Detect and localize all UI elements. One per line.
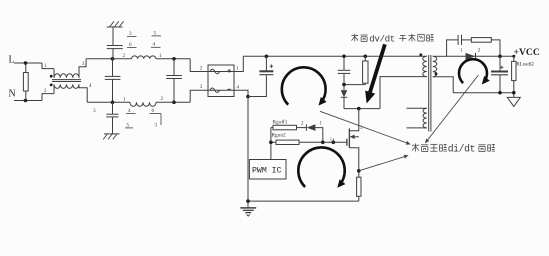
pin label 4 (filter) [151,42,161,48]
pin label 5 (filter) [152,30,162,36]
capacitor C3 (output electrolytic) with + mark [491,56,508,92]
pin 2 label (L1 left) [123,54,126,59]
junction dot gate pin [332,139,336,145]
pin 2 label (L2 right) [161,97,164,102]
junction dot RLoad bottom [512,91,516,95]
pin 1 label (L1 right) [159,54,162,59]
pointer line 2 (secondary loop to label) [425,75,479,143]
junction dot Rgon2 tee [269,141,273,145]
transformer T1 primary winding [423,56,427,76]
junction dot N [24,99,28,103]
chassis ground (top) [107,21,124,27]
transformer secondary polarity dot [435,72,438,75]
wire N input [14,100,42,102]
pin 3 label (choke) [82,62,85,67]
junction dot MOSFET drain [357,107,361,111]
node L (line input terminal label) [9,55,15,66]
svg-text:4: 4 [128,108,131,114]
svg-text:+VCC: +VCC [514,47,540,58]
junction dot gate diode leg [321,141,325,145]
transistor Q1 drain lead [349,109,358,131]
choke core lines [52,80,81,82]
wire bridge + output to DC rail [234,56,243,71]
PWM IC label [252,166,282,175]
junction dot snubber cap top [342,55,346,59]
pin 4 label (choke) [89,84,92,89]
inductor L1 (top differential choke) [132,56,156,59]
svg-text:5: 5 [127,122,130,128]
big arrow (dv/dt network pointer) [365,44,385,103]
bridge + mark [227,69,231,73]
wire L to choke pin 1 [42,63,54,69]
svg-text:di/dt: di/dt [448,144,475,155]
transistor Q1 channel bar [348,128,350,147]
transformer T1 auxiliary winding [407,108,427,128]
choke polarity dot bottom [50,84,53,87]
pin 2 label (gate diode) [301,122,304,127]
bridge - mark [227,88,231,90]
pin label 5 (bottom filter) [125,122,133,128]
pin 2 label (MOSFET drain) [360,124,362,129]
pin 1 label (output diode) [460,48,463,53]
wire top rail to bridge pin 2 [190,59,208,72]
RLoad value label [516,62,534,67]
svg-text:1: 1 [330,136,332,141]
pin label 6 (bottom filter) [150,108,162,125]
capacitor C1 (bulk electrolytic) with + mark [248,56,273,96]
capacitor CX1 (X-cap) [105,59,121,103]
pin label 6 (filter) [127,42,137,48]
bridge AC line bottom with ~ [208,88,234,92]
transistor Q1 body arrow [350,135,359,139]
wire secondary bottom lead [433,77,453,93]
RC snubber branch (output) [447,35,472,56]
pointer line 3 (sense resistor to label) [359,155,409,171]
capacitor C2 (snubber cap) [338,56,351,84]
junction dot sense pointer [357,169,361,173]
svg-text:Rgon2: Rgon2 [272,133,286,139]
junction dot output cap top [498,55,502,59]
junction dot L [24,61,28,65]
junction dot top rail / Y-cap 1 [111,57,115,61]
pin 2 label (bridge) [200,67,203,72]
transformer T1 secondary winding [433,56,437,76]
current loop arrow 2 (gate/source loop) [298,147,345,187]
svg-text:dv/dt: dv/dt [369,33,395,44]
current loop arrow 3 (secondary loop) [459,59,490,84]
svg-text:6: 6 [129,42,132,48]
common-mode choke LF1 top winding [54,69,79,78]
ground (output, open triangle) [507,97,520,106]
svg-text:6: 6 [152,108,155,114]
wire secondary top lead [433,55,447,57]
wire output diode anode line [447,55,514,57]
wire snubber bottom bus [344,84,365,86]
wire DC + rail [243,55,426,57]
diode D1 (snubber diode) [341,85,348,109]
wire PWM top vertical [270,128,272,160]
diode D3 (gate turn-off diode) [306,124,322,142]
svg-text:PWM IC: PWM IC [252,166,282,175]
junction dot snubber bus [342,83,346,87]
inductor L2 (bottom differential choke) [130,102,156,106]
wire gate bus [271,141,347,143]
resistor R7 (current sense) [357,177,361,201]
wire N to choke pin 2 [42,94,54,101]
Rgon2 label [272,133,286,139]
svg-text:3: 3 [129,31,132,37]
svg-text:N: N [9,89,16,100]
wire bottom rail to bridge pin 3 [190,90,208,102]
junction dot bottom rail / X-cap 2 [172,101,176,105]
PWM IC U1 box [249,160,286,180]
pin 3 label (bridge) [200,85,203,90]
svg-text:5: 5 [154,30,157,36]
svg-text:4: 4 [153,42,156,48]
junction dot output cap bottom [498,91,502,95]
pin label 3b (bottom filter) [155,122,158,128]
pin 1 label (MOSFET gate) [330,136,332,141]
pin 1 label (choke) [45,64,48,69]
wire output bottom rail [453,92,514,94]
pin 1 label (bridge +) [236,67,239,72]
pin 1 label (L2 left) [123,98,126,103]
transformer core lines [429,55,431,132]
wire bridge - output down [234,90,248,207]
pin label 3 (over underline, filter) [127,31,137,37]
pin 1 label (gate diode) [320,122,323,127]
junction dot snubber resistor top [364,55,368,59]
label: 极高dv/dt干扰网络 (high dv/dt interference network) [351,33,433,44]
junction dot top rail / X-cap 2 [172,57,176,61]
junction dot RLoad top [512,55,515,58]
Rgoff1 label [273,118,288,125]
wire top AC rail [86,58,190,60]
pointer line 1 (primary loop to label) [320,111,411,144]
svg-text:Rgoff1: Rgoff1 [273,118,288,125]
common-mode choke LF1 bottom winding [54,84,79,93]
chassis ground (bottom) [103,134,119,140]
diode D2 (output rectifier) [466,53,476,60]
transistor Q1 gate bar [346,139,348,146]
svg-text:L: L [9,55,15,66]
junction dot ground bus [246,199,250,203]
svg-text:RLoadΩ: RLoadΩ [516,62,534,67]
transformer primary polarity dot [419,53,422,56]
+VCC label [514,47,540,58]
wire drain bus to primary bottom [380,77,427,109]
resistor R3 (output snubber) [471,38,500,57]
resistor R1 (input discharge resistor) [23,63,28,101]
resistor R5 (Rgoff1) [271,125,307,130]
wire drain bus [344,108,380,110]
wire ground return bus [248,200,359,202]
wire choke pin 4 to bottom rail [79,84,87,102]
bridge rectifier BR1 body [208,65,234,97]
resistor R6 (Rgon2) [276,140,299,144]
junction dot bulk cap return [246,95,250,99]
label: 极高环路di/dt回路 (high loop di/dt loop) [412,143,495,154]
wire L input [14,62,42,64]
pin 2 label (choke) [44,89,47,94]
transistor Q1 source lead [349,148,358,178]
pin 2 label (output diode) [478,48,481,53]
resistor R4 (RLoad) [512,56,516,97]
svg-text:3: 3 [93,108,96,114]
bridge AC line top with ~ [208,69,234,73]
junction dot bottom rail / Y-cap 2 [111,101,115,105]
ground (primary earth) [240,208,256,216]
wire bottom AC rail [87,101,190,103]
current loop arrow 1 (bulk/primary loop) [282,67,327,105]
junction dot bulk cap + [265,55,269,59]
pin 4 label (bridge -) [237,86,240,91]
pin label 4 (bottom filter) [126,108,136,114]
wire choke pin 3 to top rail [79,59,86,78]
svg-text:3: 3 [155,122,158,128]
pin label 3 (bottom filter, lone) [93,108,96,114]
capacitor CY1 (top Y-cap) [107,27,123,59]
node N (neutral terminal label) [9,89,16,100]
capacitor CX2 (X-cap) [166,59,182,103]
choke polarity dot top [50,75,53,78]
resistor R2 (snubber resistor) [363,56,368,84]
capacitor CY2 (bottom Y-cap) [106,102,118,134]
